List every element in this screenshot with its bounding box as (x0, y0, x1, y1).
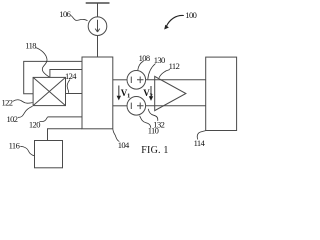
leader 118 (36, 48, 50, 78)
block 116 (35, 141, 63, 168)
wire 130 source 108 to block 114 (146, 79, 206, 81)
reference arrow 100 (164, 15, 184, 29)
leader 108 (138, 61, 144, 70)
leader 114 (197, 131, 205, 140)
current source I1 (106) (88, 17, 107, 36)
op-amp 112 triangle (155, 76, 186, 110)
leader 112 (159, 70, 170, 78)
leader 124 (67, 80, 70, 93)
wire block 104 to source 110 (113, 105, 127, 107)
svg-text:132: 132 (153, 119, 164, 129)
leader 130 (148, 64, 156, 80)
svg-text:108: 108 (139, 53, 150, 63)
svg-text:FIG. 1: FIG. 1 (141, 145, 168, 156)
voltage source V2 (110) (127, 97, 146, 116)
block 114 (206, 57, 237, 130)
leader 120 (40, 117, 48, 121)
block 104 (load/converter) (82, 57, 113, 129)
minus bar in 110 (130, 103, 132, 109)
V1 annotation arrow (117, 86, 121, 101)
mixer 102 box (33, 77, 65, 105)
wire block 104 to mixer top (50, 70, 82, 78)
leader 106 (71, 16, 88, 21)
svg-text:124: 124 (65, 71, 77, 81)
wire rail to current source (97, 3, 99, 17)
leader 104 (113, 129, 120, 141)
wire block 104 to source 108 (113, 79, 127, 81)
arrow inside current source (95, 20, 100, 32)
mixer X diagonals (33, 77, 65, 105)
wire block 104 bottom to block 116 (48, 129, 83, 141)
svg-text:130: 130 (154, 55, 165, 65)
leader 110 (140, 116, 151, 128)
leader 102 (18, 106, 33, 117)
stub wire 120 into block 104 (48, 116, 83, 118)
svg-text:120: 120 (29, 119, 40, 129)
svg-text:V1: V1 (121, 88, 130, 100)
voltage source V1 (108) (127, 71, 146, 90)
svg-text:102: 102 (7, 114, 18, 124)
plus sign in 108 (137, 77, 144, 84)
svg-text:104: 104 (118, 140, 130, 150)
svg-text:100: 100 (185, 10, 196, 20)
wire 124 mixer right to block 104 (66, 93, 83, 95)
leader 116 (20, 146, 34, 156)
plus sign in 110 (137, 103, 144, 110)
leader 122 (13, 100, 33, 104)
leader 132 (148, 109, 158, 121)
V2 annotation arrow (149, 86, 153, 101)
svg-text:116: 116 (9, 141, 20, 151)
wire loop 118 (block left to mixer left) (24, 61, 82, 93)
wire current source to block 104 (97, 36, 99, 58)
svg-text:114: 114 (194, 138, 206, 148)
supply rail (86, 2, 110, 4)
svg-text:122: 122 (2, 98, 13, 108)
minus bar in 108 (130, 77, 132, 83)
svg-text:106: 106 (59, 9, 70, 19)
wire 132 source 110 to block 114 (146, 105, 206, 107)
svg-text:112: 112 (169, 61, 180, 71)
svg-text:118: 118 (25, 41, 36, 51)
